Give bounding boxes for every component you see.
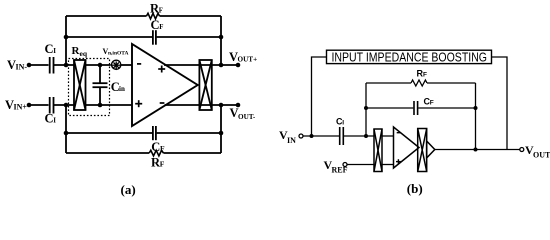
label A1 - input <box>397 132 401 134</box>
label OTA + input <box>135 100 142 107</box>
wire: CI bottom to chopper <box>54 104 75 106</box>
wire: right feedback riser (top) <box>220 16 222 65</box>
node: VOUT- feedback junction <box>219 103 224 108</box>
wire: RF bottom loop right segment <box>163 152 221 154</box>
wire: right feedback riser (bottom) <box>220 105 222 153</box>
resistor RF (top) <box>147 13 160 19</box>
label A1 + input <box>396 159 401 164</box>
wire: chopper1 to amp - input (b) <box>382 135 394 137</box>
node: VIN- terminal dot <box>27 63 32 68</box>
node: boosting loop tap (b) <box>310 134 314 138</box>
svg-text:I: I <box>53 47 56 55</box>
wire: RF top loop right segment <box>160 15 222 17</box>
wire: CF bottom loop left segment <box>66 132 152 134</box>
wire: RF bottom loop left segment <box>66 152 149 154</box>
svg-text:IN+: IN+ <box>14 103 28 112</box>
svg-text:OUT+: OUT+ <box>238 56 258 64</box>
wire: chopper to OTA + input <box>86 104 133 106</box>
label CF (top) <box>151 18 164 32</box>
label VREF (b) <box>324 158 348 175</box>
node: output feedback junction (b) <box>474 148 478 152</box>
wire: CF loop left segment (b) <box>366 107 413 109</box>
label CF (b) <box>424 97 434 107</box>
capacitor CF (b) <box>414 101 418 115</box>
chopper box (output) <box>199 60 211 110</box>
label RF (top) <box>150 2 163 16</box>
node: VOUT+ terminal dot <box>236 63 241 68</box>
node: Cin bottom tap <box>98 103 103 108</box>
noise source Vn,inOTA <box>112 60 121 69</box>
block INPUT IMPEDANCE BOOSTING <box>327 50 492 63</box>
wire: left feedback riser (top) <box>65 16 67 65</box>
wire: CI to input chopper <box>54 64 75 66</box>
node: VIN open terminal (b) <box>299 134 303 138</box>
svg-text:C: C <box>45 112 54 126</box>
op-amp A2 (b) <box>427 141 435 158</box>
svg-text:C: C <box>151 18 160 32</box>
node: CF top tap right <box>219 35 224 40</box>
svg-text:(a): (a) <box>121 182 136 197</box>
label VOUT- <box>230 106 256 121</box>
capacitor CI (top) <box>50 57 54 74</box>
wire: chopper to noise source <box>86 64 111 66</box>
wire: CI to chopper (b) <box>344 135 374 137</box>
op-amp A1 (b) <box>394 127 420 168</box>
svg-text:eq: eq <box>80 49 88 58</box>
node: Cin top tap <box>98 63 103 68</box>
label CI (top) <box>45 42 57 56</box>
svg-text:F: F <box>159 24 163 31</box>
node: feedback tap on VIN- line <box>64 63 69 68</box>
wire: RF loop riser right (b) <box>475 83 477 150</box>
svg-text:OUT-: OUT- <box>238 113 256 121</box>
node: CF top tap left <box>64 35 69 40</box>
wire: RF loop top left segment (b) <box>366 82 411 84</box>
wire: OTA bottom output <box>165 104 239 106</box>
wire: CF loop right segment (b) <box>418 107 475 109</box>
label Req <box>72 45 88 58</box>
capacitor CI (b) <box>340 127 344 145</box>
capacitor CF (top) <box>153 30 156 45</box>
svg-text:C: C <box>45 42 54 56</box>
svg-text:F: F <box>430 100 434 107</box>
svg-text:OUT: OUT <box>533 151 550 160</box>
wire: Cin bottom lead <box>99 87 101 105</box>
wire: left feedback riser (bottom) <box>65 105 67 153</box>
label VOUT+ <box>229 50 257 64</box>
wire: OTA top output <box>164 64 238 66</box>
capacitor Cin <box>93 83 108 87</box>
wire: boosting loop right riser <box>492 57 508 150</box>
wire: CF top loop right segment <box>157 36 221 38</box>
dashed box Req equivalent network <box>69 59 110 116</box>
node: CF bottom tap left <box>64 131 69 136</box>
node: feedback tap on VIN+ line <box>64 103 69 108</box>
wire: VIN- input lead <box>29 64 49 66</box>
label OTA - input <box>137 63 141 65</box>
svg-text:F: F <box>159 8 163 15</box>
wire: VREF to chopper (b) <box>347 164 374 166</box>
wire: chopper1 to amp + input (b) <box>382 164 394 166</box>
node: CF tap left (b) <box>364 106 368 110</box>
resistor RF (b) <box>411 80 427 86</box>
wire: VIN+ input lead <box>29 104 49 106</box>
svg-text:in: in <box>119 85 125 93</box>
svg-text:F: F <box>160 160 165 169</box>
label OTA - output <box>160 102 165 104</box>
wire: VIN to CI (b) <box>303 135 339 137</box>
svg-text:IN: IN <box>287 136 296 145</box>
label CI (b) <box>336 117 344 127</box>
svg-text:I: I <box>53 117 56 125</box>
chopper box 1 (b) <box>374 129 382 172</box>
label CI (bottom) <box>45 112 57 126</box>
svg-text:F: F <box>423 72 427 79</box>
node: VREF open terminal (b) <box>343 163 347 167</box>
label VIN+ <box>5 98 27 112</box>
wire: RF loop top right segment (b) <box>427 82 476 84</box>
node: VOUT- terminal dot <box>236 103 241 108</box>
wire: Cin top lead <box>99 65 101 83</box>
wire: RF loop riser left (b) <box>365 83 367 136</box>
svg-text:INPUT IMPEDANCE BOOSTING: INPUT IMPEDANCE BOOSTING <box>332 50 488 65</box>
svg-text:I: I <box>342 120 344 127</box>
node: VOUT+ feedback junction <box>219 63 224 68</box>
label Cin <box>111 80 125 94</box>
node: VOUT open terminal (b) <box>520 148 524 152</box>
label OTA + output <box>158 66 165 73</box>
wire: noise source to OTA input <box>121 64 133 66</box>
label RF (bottom) <box>151 156 165 170</box>
wire: boosting loop left riser <box>312 57 327 136</box>
node: CF bottom tap right <box>219 131 224 136</box>
svg-text:(b): (b) <box>407 181 423 196</box>
label CF (bottom) <box>151 140 165 154</box>
label VIN (b) <box>279 128 296 145</box>
resistor RF (bottom) <box>149 150 163 156</box>
label Vn,inOTA <box>103 47 129 56</box>
wire: CF top loop left segment <box>66 36 152 38</box>
capacitor CF (bottom) <box>153 126 156 140</box>
chopper box (input) <box>74 60 86 110</box>
label VOUT (b) <box>525 143 550 160</box>
capacitor CI (bottom) <box>50 97 54 114</box>
svg-text:n,inOTA: n,inOTA <box>108 50 129 56</box>
node: CF tap right (b) <box>474 106 478 110</box>
node: VIN+ terminal dot <box>27 103 32 108</box>
label RF (b) <box>417 69 428 79</box>
op-amp OTA triangle <box>132 44 198 126</box>
label VIN- <box>7 58 27 72</box>
wire: CF bottom loop right segment <box>157 132 221 134</box>
chopper box 2 (b) <box>418 129 427 172</box>
node: RF loop tap (b) <box>364 134 368 138</box>
svg-text:IN-: IN- <box>16 63 28 72</box>
wire: output line (b) <box>435 149 520 151</box>
wire: RF top loop left segment <box>66 15 147 17</box>
